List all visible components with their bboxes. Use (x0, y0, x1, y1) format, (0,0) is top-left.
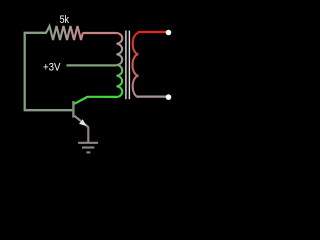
transformer T1 right winding (133, 33, 139, 97)
transformer core (125, 31, 127, 100)
ground symbol (78, 142, 98, 144)
wire secondary bottom to post (139, 95, 169, 98)
wire left vertical (24, 33, 26, 110)
transistor Q1 base bar (72, 101, 74, 118)
wire secondary top to post (139, 32, 169, 33)
post terminal top (166, 30, 172, 36)
wire emitter to ground (87, 127, 89, 143)
transistor Q1 collector lead (74, 97, 87, 104)
wire resistor to transformer (83, 32, 117, 34)
wire collector to transformer (88, 96, 117, 98)
transformer T1 left winding upper (117, 33, 123, 65)
transistor Q1 emitter arrow (79, 119, 86, 126)
wire top-left horizontal (24, 32, 47, 34)
transformer T1 left winding lower (117, 65, 123, 97)
svg-text:5k: 5k (60, 14, 70, 26)
transistor Q1 emitter lead (74, 116, 88, 127)
resistor R1 5k (46, 26, 83, 40)
rail wire +3V to tap (67, 64, 117, 66)
post terminal bottom (166, 94, 172, 100)
wire base (24, 109, 73, 111)
svg-text:+3V: +3V (43, 61, 61, 73)
